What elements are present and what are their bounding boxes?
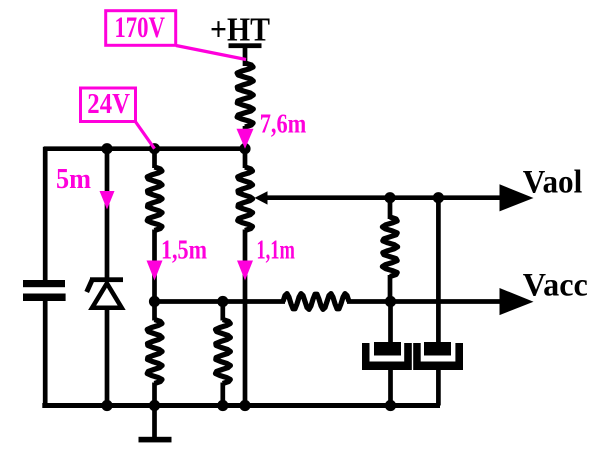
current arrow 5m — [100, 191, 115, 210]
resistor R5 (under Vacc at x=155) — [147, 320, 162, 384]
wire: resistor R1 bottom to rail node — [243, 126, 248, 149]
junction: ground rail / CE1 — [385, 400, 396, 411]
junction: rail / R1 / R3 — [239, 143, 250, 154]
junction: Vaol / CE2 branch — [433, 192, 444, 203]
output arrow Vacc — [500, 288, 534, 315]
wire: capacitor C1 bottom to ground rail — [43, 301, 48, 406]
annotation leader 24V — [135, 121, 155, 149]
junction: ground rail / zener branch — [101, 400, 112, 411]
ground — [139, 437, 172, 443]
wire: +24V top rail — [44, 146, 245, 151]
electrolytic capacitor CE1 top plate — [374, 342, 401, 356]
wire: potentiometer R3 bottom crossing Vacc to ground rail — [243, 230, 248, 406]
wire: Vacc net right segment — [347, 299, 501, 304]
junction: rail / R2 branch (24V node) — [149, 143, 160, 154]
wire: left vertical from rail to capacitor C1 — [43, 147, 48, 281]
wire: resistor R2 bottom to Vacc node — [152, 230, 157, 302]
resistor R4 (between Vaol and Vacc) — [382, 217, 397, 277]
svg-text:5m: 5m — [56, 164, 91, 195]
wire: Vacc node to resistor R6 — [220, 302, 225, 321]
capacitor C1 top plate — [23, 280, 65, 287]
wire: zener anode to ground rail — [105, 307, 110, 406]
resistor R2 (1,5m branch) — [147, 167, 162, 231]
junction: ground rail / R6 — [217, 400, 228, 411]
svg-text:24V: 24V — [87, 89, 130, 120]
svg-text:7,6m: 7,6m — [260, 108, 307, 139]
junction: Vacc / R6 — [217, 296, 228, 307]
electrolytic capacitor CE2 top plate — [424, 342, 451, 356]
junction: Vacc / R4 / CE1 — [385, 296, 396, 307]
wire: zener branch from rail down to diode D1 — [105, 149, 110, 279]
wire: resistor R4 bottom to Vacc node — [388, 275, 393, 302]
wire: Vaol node down crossing Vacc to capacitor CE2 — [436, 198, 441, 346]
potentiometer R3 wiper arrow — [255, 191, 268, 204]
wire: CE1 to ground rail — [388, 369, 393, 406]
wire: Vacc net left segment — [155, 299, 286, 304]
wire: resistor R6 bottom to ground rail — [220, 383, 225, 406]
wire: bottom ground rail — [42, 403, 440, 408]
annotation box 170V — [106, 11, 176, 46]
resistor R1 (7,6m branch) — [237, 63, 253, 127]
junction: ground rail / R5 / ground stub — [149, 400, 160, 411]
annotation leader 170V — [176, 46, 246, 60]
current arrow 1,1m — [237, 261, 253, 281]
potentiometer R3 (1,1m branch) — [238, 167, 253, 231]
power terminal +HT bar — [229, 43, 262, 48]
wire: Vaol net from wiper to output arrow — [265, 195, 501, 200]
electrolytic capacitor CE1 bottom plate — [362, 343, 412, 370]
wire: resistor R5 bottom to ground rail — [152, 383, 157, 406]
svg-text:1,1m: 1,1m — [256, 234, 295, 265]
zener diode D1 cathode bar — [90, 277, 123, 282]
current arrow 1,5m — [147, 261, 163, 281]
zener diode D1 anode triangle — [92, 283, 122, 308]
svg-text:Vacc: Vacc — [523, 268, 588, 304]
electrolytic capacitor CE2 bottom plate — [413, 343, 463, 370]
annotation box 24V — [81, 88, 136, 122]
svg-text:170V: 170V — [114, 12, 165, 44]
capacitor C1 bottom plate — [23, 294, 66, 302]
svg-text:Vaol: Vaol — [523, 164, 583, 200]
wire: rail node to resistor R2 — [152, 149, 157, 168]
junction: ground rail / R3 bottom — [239, 400, 250, 411]
resistor R7 (horizontal, in Vacc line) — [283, 294, 349, 310]
wire: CE2 to bottom rail corner — [436, 369, 441, 406]
junction: Vacc / R2 / R5 — [149, 296, 160, 307]
wire: Vacc node down to electrolytic capacitor CE1 — [388, 302, 393, 347]
wire: rail node to potentiometer R3 — [243, 149, 248, 168]
svg-text:+HT: +HT — [210, 12, 270, 49]
current arrow 7,6m — [237, 129, 254, 149]
zener diode D1 bent wing — [87, 280, 93, 293]
junction: Vaol / R4 — [384, 192, 395, 203]
wire: +HT terminal to resistor R1 — [243, 47, 248, 66]
svg-text:1,5m: 1,5m — [161, 234, 207, 265]
junction: rail / zener branch — [101, 143, 112, 154]
resistor R6 (under Vacc at x=222) — [216, 320, 231, 384]
output arrow Vaol — [500, 184, 534, 211]
wire: Vacc node to resistor R5 — [152, 302, 157, 321]
wire: Vaol node to resistor R4 — [388, 198, 393, 219]
wire: ground stub — [152, 406, 157, 440]
